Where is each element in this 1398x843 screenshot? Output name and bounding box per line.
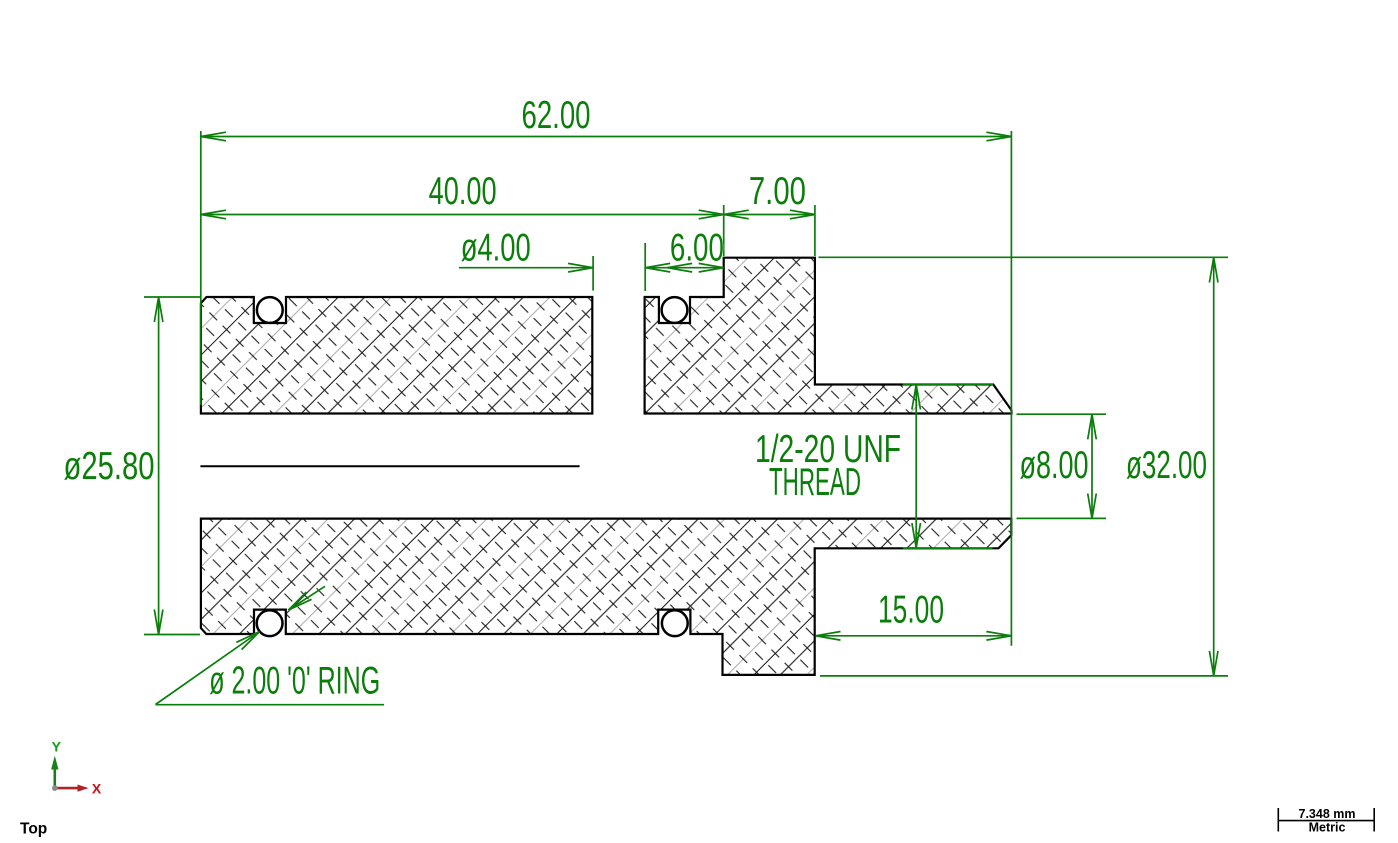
svg-text:Y: Y [52, 739, 62, 755]
centerline [201, 465, 578, 467]
dimension line 6.00 [645, 267, 724, 269]
dimension line diameter 25.80 [158, 297, 160, 635]
svg-text:62.00: 62.00 [522, 94, 591, 137]
o-ring upper-left [257, 297, 283, 323]
thread leader line [915, 385, 917, 549]
o-ring lower-left [257, 610, 283, 636]
thread od line lower [903, 547, 993, 549]
extension line y=634.5 left [144, 634, 200, 636]
dimension line 62.00 [201, 136, 1011, 138]
upper-left hatched section [201, 297, 592, 414]
o-ring leader [156, 632, 260, 705]
extension line y=518.4 [1017, 517, 1107, 519]
svg-text:ø4.00: ø4.00 [461, 227, 531, 270]
svg-text:ø32.00: ø32.00 [1126, 444, 1207, 487]
svg-text:ø 2.00 '0' RING: ø 2.00 '0' RING [209, 660, 380, 703]
svg-text:ø25.80: ø25.80 [64, 445, 155, 488]
extension line right x=1011 [1010, 131, 1012, 646]
scale bar [1278, 808, 1374, 832]
extension line y=257.5 right [819, 256, 1229, 258]
extension line x=814.9 [814, 205, 816, 256]
extension line x=723.7 [723, 205, 725, 256]
svg-text:40.00: 40.00 [429, 170, 497, 213]
svg-text:Top: Top [20, 821, 47, 838]
x axis [55, 787, 79, 790]
o-ring upper-right [662, 297, 688, 323]
extension line y=297 left [144, 296, 200, 298]
green dimension graphics [144, 131, 1228, 705]
o-ring leader underline [156, 704, 385, 706]
svg-text:7.00: 7.00 [749, 170, 806, 213]
extension line x=593.1 [592, 256, 594, 291]
extension line x=645.2 [644, 243, 646, 291]
dimension line 15.00 [816, 635, 1012, 637]
thread od line upper [903, 384, 994, 386]
lower hatched section [201, 519, 1011, 675]
svg-text:ø8.00: ø8.00 [1020, 444, 1089, 487]
dimension line diameter 4.00 [459, 267, 593, 269]
dimension texts [64, 94, 1208, 703]
extension line y=675.9 right [820, 675, 1228, 677]
upper-right hatched section [645, 258, 1012, 414]
svg-text:THREAD: THREAD [769, 461, 861, 504]
svg-text:15.00: 15.00 [878, 589, 944, 632]
dimension line 40.00 [201, 214, 724, 216]
y axis [53, 768, 56, 788]
svg-text:Metric: Metric [1309, 820, 1346, 834]
dimension line diameter 32.00 [1213, 258, 1215, 676]
svg-text:7.348 mm: 7.348 mm [1299, 807, 1356, 821]
origin dot [52, 785, 58, 791]
extension line left x=201 [200, 131, 202, 405]
coordinate triad [51, 739, 102, 797]
extension line y=414.2 [1017, 413, 1107, 415]
dimension line 7.00 [724, 214, 815, 216]
svg-text:X: X [92, 781, 102, 797]
o-ring lower-right [662, 610, 688, 636]
svg-text:6.00: 6.00 [670, 227, 724, 270]
dimension line diameter 8.00 [1091, 414, 1093, 518]
